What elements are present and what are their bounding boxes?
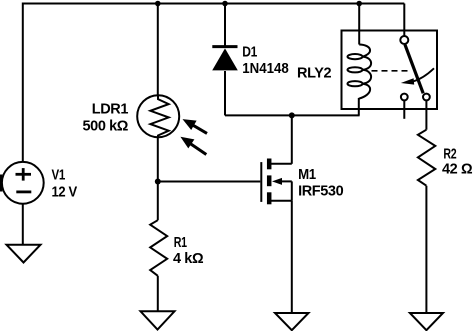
svg-text:V1: V1 [52, 167, 66, 183]
svg-text:LDR1: LDR1 [92, 102, 129, 118]
svg-text:R1: R1 [174, 235, 187, 251]
svg-text:500 kΩ: 500 kΩ [82, 119, 128, 135]
wire R1 bottom [157, 276, 159, 312]
wire switch common [403, 4, 405, 36]
svg-text:RLY2: RLY2 [297, 65, 331, 81]
relay RLY2 box [342, 31, 438, 110]
ground below R1 [141, 311, 175, 329]
wire R2 bottom [425, 186, 427, 313]
wire M1 source [291, 201, 293, 313]
svg-text:R2: R2 [443, 147, 456, 163]
LDR arrow 1 [193, 125, 208, 133]
switch pivot [400, 36, 408, 44]
wire D1 top [224, 4, 226, 47]
svg-text:42 Ω: 42 Ω [442, 162, 473, 178]
wire D1 to drain node [225, 114, 292, 116]
edge mark [0, 175, 2, 192]
svg-text:12 V: 12 V [52, 184, 78, 200]
ground below V1 [7, 245, 41, 263]
switch arm [405, 44, 423, 93]
contact NC [401, 94, 408, 101]
wire NO to R2 [425, 101, 427, 130]
LDR arrow 2 [191, 144, 207, 155]
wire NC stub [403, 101, 405, 119]
wire coil bottom [358, 98, 360, 115]
wire LDR1 top [157, 4, 159, 95]
wire D1 bottom [224, 71, 226, 115]
wire LDR1 to R1 / gate node [157, 138, 159, 221]
resistor R2 [418, 130, 435, 186]
ground below M1 [275, 313, 309, 330]
wire drain node to coil [292, 114, 360, 116]
resistor R1 [150, 220, 167, 276]
svg-text:1N4148: 1N4148 [242, 61, 288, 77]
actuator arrow [413, 68, 435, 81]
wire coil top [358, 4, 360, 45]
LDR LDR1 [137, 95, 179, 137]
wire M1 drain [291, 115, 293, 163]
node gate [155, 179, 161, 185]
node top-coil [356, 1, 362, 7]
svg-text:IRF530: IRF530 [298, 184, 343, 200]
ground below R2 [410, 313, 443, 330]
relay coil [359, 45, 370, 57]
wire top rail [23, 3, 405, 5]
svg-text:D1: D1 [242, 45, 257, 61]
wire V1 bottom [22, 204, 24, 245]
diode D1 [212, 45, 237, 48]
contact NO [423, 94, 430, 101]
mosfet M1 [260, 162, 262, 202]
wire V1 top vertical [22, 3, 24, 163]
dashed actuator link [372, 70, 410, 72]
wire gate [158, 181, 260, 183]
node drain [289, 112, 295, 118]
node top-D1 [222, 1, 228, 7]
voltage source V1 [2, 162, 44, 204]
svg-text:M1: M1 [298, 167, 316, 183]
svg-text:4 kΩ: 4 kΩ [173, 251, 204, 267]
node top-LDR [155, 1, 161, 7]
